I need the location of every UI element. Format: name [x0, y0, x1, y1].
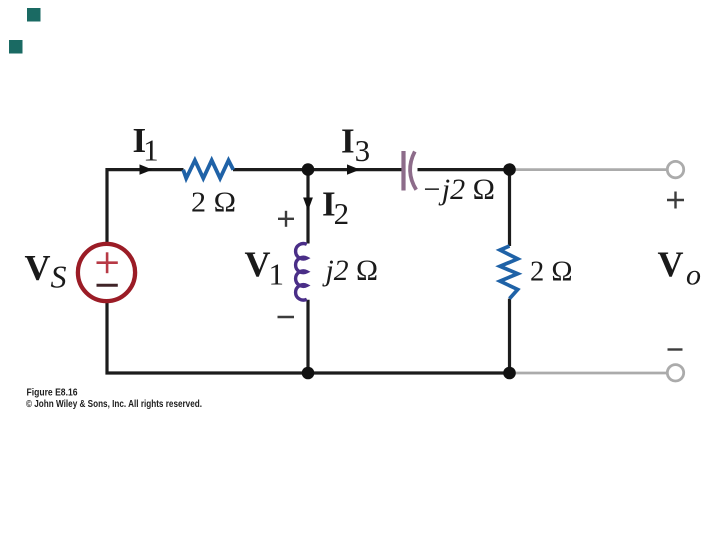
svg-text:Vo: Vo: [658, 244, 702, 292]
svg-text:I2: I2: [322, 185, 349, 232]
svg-text:Figure E8.16: Figure E8.16: [27, 387, 78, 398]
svg-text:2 Ω: 2 Ω: [191, 187, 236, 218]
svg-text:I1: I1: [133, 121, 159, 168]
svg-text:V1: V1: [245, 244, 285, 292]
svg-text:VS: VS: [25, 248, 67, 295]
svg-text:2 Ω: 2 Ω: [530, 257, 573, 288]
svg-text:I3: I3: [341, 122, 370, 169]
svg-text:j2 Ω: j2 Ω: [322, 254, 378, 287]
svg-text:© John Wiley & Sons, Inc. All: © John Wiley & Sons, Inc. All rights res…: [26, 399, 202, 410]
svg-text:−j2 Ω: −j2 Ω: [422, 173, 496, 206]
